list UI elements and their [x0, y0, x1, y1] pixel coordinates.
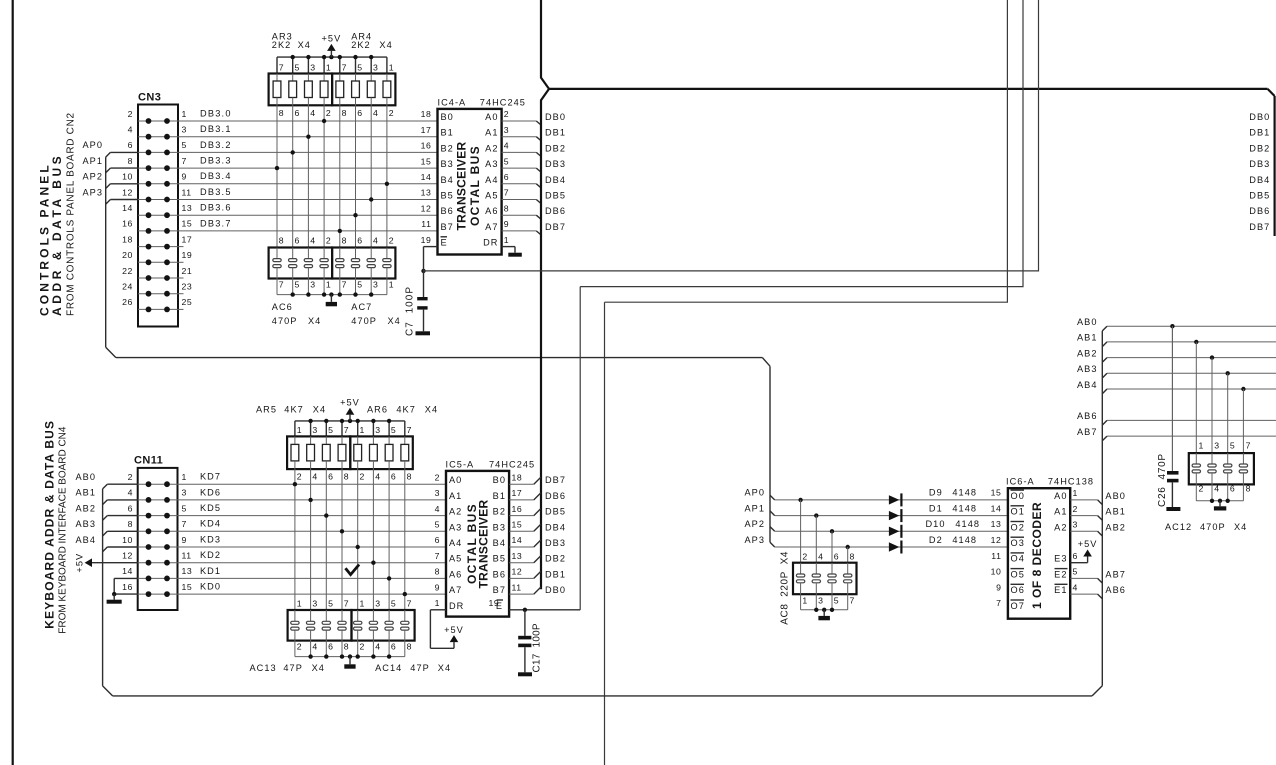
- svg-text:DB3: DB3: [545, 159, 566, 169]
- svg-text:470P: 470P: [272, 316, 298, 326]
- svg-text:5: 5: [1073, 567, 1078, 577]
- svg-text:B0: B0: [493, 475, 506, 485]
- svg-text:6: 6: [128, 140, 133, 150]
- svg-text:4: 4: [128, 125, 133, 135]
- svg-text:3: 3: [312, 425, 317, 435]
- svg-text:8: 8: [504, 203, 509, 213]
- svg-text:18: 18: [122, 234, 133, 244]
- svg-text:16: 16: [421, 141, 432, 151]
- svg-text:10: 10: [991, 567, 1002, 577]
- svg-text:CN11: CN11: [134, 455, 163, 467]
- svg-text:7: 7: [850, 596, 855, 606]
- svg-text:9: 9: [182, 535, 187, 545]
- svg-text:2K2: 2K2: [351, 40, 371, 50]
- svg-text:7: 7: [342, 63, 347, 73]
- svg-text:4: 4: [375, 471, 380, 481]
- svg-text:4: 4: [310, 108, 315, 118]
- svg-text:6: 6: [328, 642, 333, 652]
- svg-text:18: 18: [421, 109, 432, 119]
- svg-text:AC7: AC7: [351, 302, 372, 312]
- svg-text:A2: A2: [1054, 522, 1067, 532]
- svg-text:20: 20: [122, 250, 133, 260]
- svg-text:A2: A2: [449, 507, 462, 517]
- svg-text:8: 8: [407, 471, 412, 481]
- svg-text:AC14: AC14: [375, 663, 402, 673]
- svg-text:13: 13: [512, 551, 523, 561]
- svg-text:X4: X4: [1234, 522, 1247, 532]
- svg-text:+5V: +5V: [340, 397, 360, 407]
- svg-text:A0: A0: [1054, 491, 1067, 501]
- svg-text:5: 5: [357, 280, 362, 290]
- svg-text:5: 5: [391, 425, 396, 435]
- svg-text:2: 2: [326, 236, 331, 246]
- svg-text:DB4: DB4: [1249, 175, 1270, 185]
- svg-text:26: 26: [122, 297, 133, 307]
- svg-text:7: 7: [435, 551, 440, 561]
- svg-text:FROM CONTROLS PANEL BOARD CN2: FROM CONTROLS PANEL BOARD CN2: [65, 112, 76, 316]
- svg-text:DR: DR: [483, 238, 498, 248]
- svg-text:O3: O3: [1011, 538, 1025, 548]
- svg-text:14: 14: [991, 503, 1002, 513]
- svg-text:DB7: DB7: [545, 222, 566, 232]
- svg-text:3: 3: [182, 125, 187, 135]
- svg-text:7: 7: [407, 425, 412, 435]
- svg-text:4: 4: [312, 642, 317, 652]
- svg-text:DB0: DB0: [1249, 112, 1270, 122]
- svg-text:6: 6: [391, 642, 396, 652]
- svg-text:5: 5: [1230, 441, 1235, 451]
- svg-text:1: 1: [360, 425, 365, 435]
- svg-text:DB6: DB6: [545, 206, 566, 216]
- svg-text:E3: E3: [1054, 554, 1067, 564]
- svg-text:DB3.6: DB3.6: [200, 203, 232, 213]
- svg-text:1: 1: [504, 235, 509, 245]
- svg-text:7: 7: [996, 598, 1001, 608]
- svg-text:2: 2: [389, 108, 394, 118]
- svg-text:7: 7: [342, 280, 347, 290]
- svg-text:AC13: AC13: [250, 663, 277, 673]
- svg-text:2: 2: [297, 471, 302, 481]
- svg-text:8: 8: [342, 108, 347, 118]
- svg-text:1: 1: [182, 472, 187, 482]
- svg-text:DB3.5: DB3.5: [200, 187, 232, 197]
- svg-text:1: 1: [360, 599, 365, 609]
- svg-text:1: 1: [297, 599, 302, 609]
- svg-text:6: 6: [128, 503, 133, 513]
- svg-text:3: 3: [310, 63, 315, 73]
- svg-text:AR5: AR5: [256, 405, 277, 415]
- svg-text:AB7: AB7: [1105, 569, 1126, 579]
- svg-text:2: 2: [128, 109, 133, 119]
- svg-text:O2: O2: [1011, 522, 1025, 532]
- svg-text:4148: 4148: [952, 535, 977, 545]
- svg-text:2: 2: [435, 472, 440, 482]
- svg-text:X4: X4: [438, 663, 451, 673]
- svg-text:D10: D10: [926, 519, 946, 529]
- svg-text:O6: O6: [1011, 585, 1025, 595]
- svg-text:5: 5: [435, 520, 440, 530]
- svg-text:DB3: DB3: [545, 538, 566, 548]
- svg-text:FROM KEYBOARD INTERFACE BOARD: FROM KEYBOARD INTERFACE BOARD CN4: [57, 426, 68, 634]
- svg-text:B0: B0: [441, 112, 454, 122]
- svg-text:+5V: +5V: [74, 553, 84, 573]
- svg-text:3: 3: [312, 599, 317, 609]
- svg-text:DB4: DB4: [545, 175, 566, 185]
- svg-text:5: 5: [182, 503, 187, 513]
- svg-text:470P: 470P: [1200, 522, 1226, 532]
- svg-text:AP3: AP3: [82, 187, 103, 197]
- svg-text:KD0: KD0: [200, 582, 221, 592]
- svg-text:12: 12: [421, 203, 432, 213]
- svg-text:B7: B7: [441, 222, 454, 232]
- svg-text:A2: A2: [485, 143, 498, 153]
- svg-text:4: 4: [312, 471, 317, 481]
- svg-text:11: 11: [182, 551, 192, 561]
- svg-text:6: 6: [834, 552, 839, 562]
- svg-text:7: 7: [279, 63, 284, 73]
- svg-text:2: 2: [297, 642, 302, 652]
- svg-text:X4: X4: [379, 40, 392, 50]
- svg-text:6: 6: [435, 535, 440, 545]
- svg-text:X4: X4: [425, 405, 438, 415]
- svg-text:DB3.2: DB3.2: [200, 140, 232, 150]
- svg-text:3: 3: [818, 596, 823, 606]
- svg-text:7: 7: [1246, 441, 1251, 451]
- svg-text:19: 19: [421, 235, 432, 245]
- svg-text:DB5: DB5: [1249, 191, 1270, 201]
- svg-text:3: 3: [1214, 441, 1219, 451]
- svg-text:2K2: 2K2: [272, 40, 292, 50]
- svg-text:TRANSCEIVER: TRANSCEIVER: [476, 499, 490, 588]
- svg-text:KD2: KD2: [200, 550, 221, 560]
- svg-text:O0: O0: [1011, 491, 1025, 501]
- svg-text:DB2: DB2: [545, 554, 566, 564]
- svg-text:O7: O7: [1011, 601, 1025, 611]
- svg-text:D1: D1: [929, 503, 943, 513]
- svg-text:A7: A7: [449, 585, 462, 595]
- svg-text:3: 3: [373, 280, 378, 290]
- svg-text:X4: X4: [313, 405, 326, 415]
- svg-text:15: 15: [182, 582, 193, 592]
- svg-text:6: 6: [328, 471, 333, 481]
- svg-text:8: 8: [279, 236, 284, 246]
- svg-text:DB3.3: DB3.3: [200, 156, 232, 166]
- svg-text:AP0: AP0: [82, 140, 103, 150]
- svg-text:4148: 4148: [952, 488, 977, 498]
- svg-text:11: 11: [421, 219, 431, 229]
- svg-text:AB1: AB1: [75, 488, 96, 498]
- svg-text:KD5: KD5: [200, 503, 221, 513]
- svg-text:AB3: AB3: [75, 519, 96, 529]
- svg-text:+5V: +5V: [444, 625, 464, 635]
- svg-text:DB0: DB0: [545, 585, 566, 595]
- svg-text:AP0: AP0: [744, 488, 765, 498]
- svg-text:IC4-A: IC4-A: [438, 98, 467, 108]
- svg-text:D2: D2: [929, 535, 943, 545]
- svg-text:7: 7: [182, 156, 187, 166]
- svg-text:6: 6: [295, 108, 300, 118]
- svg-text:A3: A3: [485, 159, 498, 169]
- svg-text:24: 24: [122, 282, 133, 292]
- svg-text:2: 2: [1073, 504, 1078, 514]
- svg-text:A4: A4: [449, 538, 462, 548]
- svg-text:AB6: AB6: [1105, 585, 1126, 595]
- svg-text:47P: 47P: [283, 663, 303, 673]
- svg-text:2: 2: [326, 108, 331, 118]
- svg-text:2: 2: [360, 642, 365, 652]
- svg-text:X4: X4: [312, 663, 325, 673]
- svg-text:AC8 220P X4: AC8 220P X4: [779, 551, 790, 625]
- svg-text:E: E: [441, 238, 448, 248]
- svg-text:E: E: [496, 601, 503, 611]
- svg-text:2: 2: [504, 109, 509, 119]
- svg-text:AB1: AB1: [1105, 507, 1126, 517]
- svg-text:AB4: AB4: [1077, 380, 1098, 390]
- svg-text:AB0: AB0: [1105, 491, 1126, 501]
- svg-text:25: 25: [182, 297, 193, 307]
- svg-text:DB3.1: DB3.1: [200, 124, 232, 134]
- svg-text:6: 6: [504, 172, 509, 182]
- svg-text:+5V: +5V: [322, 34, 342, 44]
- svg-text:7: 7: [504, 188, 509, 198]
- svg-text:9: 9: [435, 582, 440, 592]
- svg-text:15: 15: [182, 219, 193, 229]
- svg-text:AB0: AB0: [75, 472, 96, 482]
- svg-text:6: 6: [1073, 551, 1078, 561]
- svg-text:15: 15: [512, 520, 523, 530]
- svg-text:8: 8: [128, 156, 133, 166]
- svg-text:DB3.0: DB3.0: [200, 108, 232, 118]
- svg-text:DB1: DB1: [545, 569, 566, 579]
- svg-text:5: 5: [328, 425, 333, 435]
- svg-text:1: 1: [297, 425, 302, 435]
- svg-text:DB6: DB6: [545, 491, 566, 501]
- svg-text:1: 1: [1073, 488, 1078, 498]
- svg-text:C26 470P: C26 470P: [1157, 453, 1168, 507]
- svg-text:+5V: +5V: [1078, 539, 1098, 549]
- svg-text:19: 19: [182, 250, 193, 260]
- svg-text:16: 16: [122, 219, 133, 229]
- svg-text:X4: X4: [308, 316, 321, 326]
- svg-text:8: 8: [344, 642, 349, 652]
- svg-text:DB0: DB0: [545, 112, 566, 122]
- svg-text:17: 17: [421, 125, 432, 135]
- svg-text:B3: B3: [493, 522, 506, 532]
- svg-text:3: 3: [504, 125, 509, 135]
- svg-text:4: 4: [504, 141, 509, 151]
- svg-text:8: 8: [407, 642, 412, 652]
- svg-text:B4: B4: [441, 175, 454, 185]
- svg-text:AP2: AP2: [82, 172, 103, 182]
- svg-text:AB2: AB2: [1105, 522, 1126, 532]
- svg-text:9: 9: [182, 172, 187, 182]
- svg-text:22: 22: [122, 266, 133, 276]
- svg-text:B1: B1: [493, 491, 506, 501]
- svg-text:DB1: DB1: [1249, 128, 1270, 138]
- svg-text:21: 21: [182, 266, 193, 276]
- svg-text:4: 4: [373, 108, 378, 118]
- svg-text:TRANSCEIVER: TRANSCEIVER: [455, 141, 469, 230]
- svg-text:23: 23: [182, 282, 193, 292]
- svg-text:6: 6: [357, 108, 362, 118]
- svg-text:17: 17: [512, 488, 523, 498]
- svg-text:DB1: DB1: [545, 128, 566, 138]
- svg-text:470P: 470P: [351, 316, 377, 326]
- svg-text:4148: 4148: [955, 519, 980, 529]
- svg-text:A4: A4: [485, 175, 498, 185]
- svg-text:12: 12: [122, 187, 133, 197]
- svg-text:B2: B2: [493, 507, 506, 517]
- svg-text:4: 4: [375, 642, 380, 652]
- svg-text:AB7: AB7: [1077, 427, 1098, 437]
- svg-text:B1: B1: [441, 128, 454, 138]
- svg-text:B5: B5: [441, 191, 454, 201]
- svg-text:8: 8: [279, 108, 284, 118]
- svg-text:5: 5: [295, 63, 300, 73]
- svg-text:D9: D9: [929, 488, 943, 498]
- svg-text:E1: E1: [1054, 585, 1067, 595]
- svg-text:1: 1: [389, 63, 394, 73]
- svg-text:4: 4: [128, 488, 133, 498]
- svg-text:5: 5: [391, 599, 396, 609]
- svg-text:3: 3: [375, 599, 380, 609]
- svg-text:B6: B6: [493, 569, 506, 579]
- svg-text:13: 13: [182, 566, 193, 576]
- svg-text:10: 10: [122, 172, 133, 182]
- svg-text:DB2: DB2: [545, 143, 566, 153]
- svg-text:12: 12: [122, 551, 133, 561]
- svg-text:OCTAL BUS: OCTAL BUS: [468, 146, 482, 226]
- svg-text:15: 15: [991, 488, 1002, 498]
- svg-text:8: 8: [435, 567, 440, 577]
- svg-text:9: 9: [996, 582, 1001, 592]
- svg-text:8: 8: [342, 236, 347, 246]
- svg-text:15: 15: [421, 156, 432, 166]
- svg-text:3: 3: [182, 488, 187, 498]
- svg-text:A1: A1: [485, 128, 498, 138]
- svg-text:O5: O5: [1011, 569, 1025, 579]
- svg-text:4: 4: [373, 236, 378, 246]
- svg-text:A1: A1: [449, 491, 462, 501]
- svg-text:DB3.7: DB3.7: [200, 218, 232, 228]
- svg-text:7: 7: [182, 519, 187, 529]
- svg-text:E2: E2: [1054, 569, 1067, 579]
- svg-text:2: 2: [128, 472, 133, 482]
- svg-text:CN3: CN3: [138, 92, 161, 104]
- svg-text:7: 7: [407, 599, 412, 609]
- svg-text:3: 3: [310, 280, 315, 290]
- svg-text:17: 17: [182, 234, 193, 244]
- svg-text:KD1: KD1: [200, 566, 221, 576]
- svg-text:4: 4: [1073, 582, 1078, 592]
- svg-text:B5: B5: [493, 554, 506, 564]
- svg-text:B2: B2: [441, 143, 454, 153]
- svg-text:KD4: KD4: [200, 519, 221, 529]
- svg-text:9: 9: [504, 219, 509, 229]
- svg-text:O1: O1: [1011, 507, 1025, 517]
- svg-text:3: 3: [375, 425, 380, 435]
- svg-text:DB5: DB5: [545, 507, 566, 517]
- svg-text:IC6-A: IC6-A: [1006, 477, 1035, 487]
- svg-text:5: 5: [328, 599, 333, 609]
- svg-text:A6: A6: [449, 569, 462, 579]
- svg-text:18: 18: [512, 472, 523, 482]
- svg-text:AP3: AP3: [744, 535, 765, 545]
- svg-text:3: 3: [1073, 520, 1078, 530]
- svg-text:14: 14: [512, 535, 523, 545]
- svg-text:2: 2: [360, 471, 365, 481]
- svg-text:74HC245: 74HC245: [489, 459, 535, 469]
- svg-text:5: 5: [357, 63, 362, 73]
- svg-text:KD6: KD6: [200, 487, 221, 497]
- svg-text:AR6: AR6: [367, 405, 388, 415]
- svg-text:8: 8: [850, 552, 855, 562]
- svg-text:DB3: DB3: [1249, 159, 1270, 169]
- svg-text:A5: A5: [485, 191, 498, 201]
- svg-text:DB4: DB4: [545, 522, 566, 532]
- svg-text:AB4: AB4: [75, 535, 96, 545]
- svg-text:B6: B6: [441, 206, 454, 216]
- svg-text:2: 2: [389, 236, 394, 246]
- svg-text:B3: B3: [441, 159, 454, 169]
- svg-text:AB3: AB3: [1077, 364, 1098, 374]
- svg-text:4148: 4148: [952, 503, 977, 513]
- svg-text:DB7: DB7: [1249, 222, 1270, 232]
- svg-text:7: 7: [344, 425, 349, 435]
- svg-text:4: 4: [310, 236, 315, 246]
- svg-text:B7: B7: [493, 585, 506, 595]
- svg-text:5: 5: [182, 140, 187, 150]
- svg-text:11: 11: [182, 187, 192, 197]
- svg-text:DR: DR: [449, 601, 464, 611]
- svg-text:12: 12: [991, 535, 1002, 545]
- svg-text:AP2: AP2: [744, 519, 765, 529]
- svg-text:AB2: AB2: [1077, 348, 1098, 358]
- svg-text:13: 13: [421, 188, 432, 198]
- svg-text:DB2: DB2: [1249, 143, 1270, 153]
- svg-text:A7: A7: [485, 222, 498, 232]
- svg-text:5: 5: [504, 156, 509, 166]
- svg-text:47P: 47P: [410, 663, 430, 673]
- svg-text:14: 14: [122, 566, 133, 576]
- svg-text:AC6: AC6: [272, 302, 293, 312]
- svg-text:16: 16: [122, 582, 133, 592]
- svg-text:1: 1: [1199, 441, 1204, 451]
- svg-text:4K7: 4K7: [284, 405, 304, 415]
- svg-text:AB2: AB2: [75, 503, 96, 513]
- svg-text:KEYBOARD ADDR & DATA BUS: KEYBOARD ADDR & DATA BUS: [42, 421, 56, 629]
- svg-text:6: 6: [295, 236, 300, 246]
- svg-text:DB6: DB6: [1249, 206, 1270, 216]
- svg-text:11: 11: [512, 582, 522, 592]
- svg-text:5: 5: [295, 280, 300, 290]
- svg-text:IC5-A: IC5-A: [446, 459, 475, 469]
- svg-text:4: 4: [818, 552, 823, 562]
- svg-text:6: 6: [391, 471, 396, 481]
- svg-text:7: 7: [344, 599, 349, 609]
- svg-text:A5: A5: [449, 554, 462, 564]
- svg-text:1: 1: [389, 280, 394, 290]
- svg-text:C17 100P: C17 100P: [532, 623, 543, 673]
- svg-text:DB3.4: DB3.4: [200, 171, 232, 181]
- svg-text:1 OF 8 DECODER: 1 OF 8 DECODER: [1030, 502, 1044, 609]
- svg-text:A0: A0: [485, 112, 498, 122]
- svg-text:8: 8: [344, 471, 349, 481]
- svg-text:A0: A0: [449, 475, 462, 485]
- svg-text:B4: B4: [493, 538, 506, 548]
- svg-text:10: 10: [122, 535, 133, 545]
- svg-text:X4: X4: [298, 40, 311, 50]
